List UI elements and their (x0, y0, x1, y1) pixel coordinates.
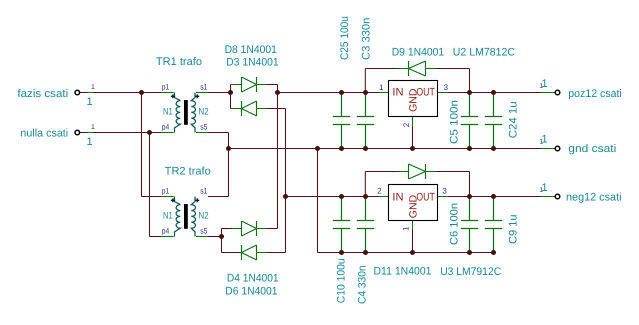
wire D6 anode to v2 (257, 252, 268, 254)
wire D11 left leg (364, 172, 366, 197)
wire v2 vertical D3 anode to D6 anode (285, 109, 287, 253)
junction fazis / TR2 p1 (139, 90, 144, 95)
wire to D6 cathode (222, 252, 240, 254)
svg-text:N1: N1 (163, 211, 173, 222)
capacitor C25 (333, 93, 350, 149)
svg-text:3: 3 (444, 83, 449, 92)
wire D4 cathode to v1 (257, 228, 268, 230)
junction C6 bottom (467, 250, 472, 255)
diode D11 (409, 164, 426, 179)
junction C24 bottom (491, 146, 496, 151)
diode D6 (242, 245, 257, 260)
svg-text:2: 2 (377, 187, 382, 196)
junction C9 top (491, 194, 496, 199)
junction D11 right / C6 / U3 OUT (467, 194, 472, 199)
junction neg rail tap (283, 194, 288, 199)
junction C3 / D9 left (363, 90, 368, 95)
junction node A (228, 90, 233, 95)
svg-text:N2: N2 (199, 107, 209, 118)
junction C3 bottom (363, 146, 368, 151)
svg-text:s1: s1 (200, 82, 208, 91)
junction nulla / TR2 p4 (147, 130, 152, 135)
svg-text:N1: N1 (163, 107, 173, 118)
wire to D4 anode (222, 228, 232, 230)
junction U2 pin2 gnd (410, 146, 415, 151)
junction C25 bottom (339, 146, 344, 151)
wire TR2 s5 branch vertical (221, 229, 223, 253)
svg-text:C4 330n: C4 330n (357, 265, 369, 304)
junction node B (275, 90, 280, 95)
capacitor C10 (333, 197, 350, 253)
regulator U2 (389, 81, 438, 117)
svg-text:C5 100n: C5 100n (448, 100, 460, 144)
wire node A to D3 cathode (230, 108, 233, 110)
svg-text:3: 3 (442, 187, 447, 196)
svg-text:IN: IN (392, 191, 403, 203)
junction D9 right / C5 / U2 OUT (467, 90, 472, 95)
wire node A to D8 anode (230, 84, 233, 86)
svg-text:D11 1N4001: D11 1N4001 (374, 266, 432, 278)
svg-text:s1: s1 (200, 186, 208, 195)
diode D3 (242, 101, 257, 116)
svg-text:C10 100u: C10 100u (335, 258, 347, 303)
wire fazis vertical to TR2 p1 (141, 93, 143, 197)
svg-text:p4: p4 (162, 226, 170, 235)
junction C4 bottom (363, 250, 368, 255)
wire gnd drop to bottom rail (317, 149, 319, 253)
wire D9 left leg (364, 69, 366, 93)
svg-text:U3 LM7912C: U3 LM7912C (440, 266, 501, 278)
svg-text:neg12 csati: neg12 csati (566, 191, 622, 203)
svg-text:C3 330n: C3 330n (360, 18, 372, 60)
wire TR2 s5 to diode branch (196, 236, 209, 238)
svg-text:IN: IN (392, 87, 403, 99)
port gnd csati (555, 146, 560, 151)
junction TR2 s5 (219, 234, 224, 239)
svg-text:gnd csati: gnd csati (568, 143, 616, 155)
wire TR1 s1 to node A (196, 92, 209, 94)
svg-text:U2 LM7812C: U2 LM7812C (453, 46, 515, 58)
svg-text:1: 1 (542, 78, 548, 90)
regulator U3 (389, 185, 438, 221)
svg-text:1: 1 (86, 136, 92, 148)
junction C10 bottom (339, 250, 344, 255)
port nulla csati (75, 130, 80, 135)
wire gnd rail (229, 148, 542, 150)
svg-text:TR2 trafo: TR2 trafo (165, 166, 211, 178)
svg-text:D4 1N4001: D4 1N4001 (227, 273, 279, 285)
port poz12 csati (555, 90, 560, 95)
diode D8 (242, 77, 257, 92)
junction gnd tap (226, 146, 231, 151)
capacitor C6 (461, 197, 478, 253)
wire U2 OUT to poz12 csati (438, 92, 449, 94)
svg-text:C9 1u: C9 1u (507, 214, 519, 244)
diode D4 (242, 221, 257, 236)
svg-text:1: 1 (91, 124, 95, 131)
capacitor C9 (485, 197, 502, 253)
node A vertical (230, 85, 232, 109)
svg-text:1: 1 (86, 96, 92, 108)
wire TR1 s5 down to gnd and TR2 s1 (196, 132, 209, 134)
svg-text:1: 1 (542, 133, 548, 145)
wire D11 right leg (426, 171, 437, 173)
svg-text:2: 2 (402, 122, 411, 127)
capacitor C5 (461, 93, 478, 149)
wire bottom return rail (318, 252, 494, 254)
capacitor C24 (485, 93, 502, 149)
diode D9 (409, 61, 426, 76)
wire negative rail v2 to U3 IN (286, 196, 379, 198)
svg-text:GND: GND (408, 194, 420, 218)
svg-text:C24 1u: C24 1u (507, 101, 519, 138)
svg-text:1: 1 (401, 226, 410, 231)
junction C10 top (339, 194, 344, 199)
svg-text:C25 100u: C25 100u (339, 16, 351, 60)
svg-text:D9 1N4001: D9 1N4001 (392, 46, 445, 58)
svg-text:1: 1 (91, 84, 95, 91)
wire D8 cathode to node B (257, 84, 268, 86)
port fazis csati (75, 90, 80, 95)
capacitor C3 (357, 93, 374, 149)
junction gnd drop (315, 146, 320, 151)
svg-text:GND: GND (407, 88, 419, 112)
svg-text:nulla csati: nulla csati (20, 128, 68, 140)
transformer TR1 (171, 93, 199, 133)
wire nulla csati to TR1 p4 (79, 132, 161, 134)
junction C4 / D11 left (363, 194, 368, 199)
junction C25 top (339, 90, 344, 95)
svg-text:TR1 trafo: TR1 trafo (156, 56, 202, 68)
svg-text:D6 1N4001: D6 1N4001 (225, 286, 277, 298)
junction C5 bottom (467, 146, 472, 151)
wire nulla vertical to TR2 p4 (149, 133, 151, 237)
wire U3 pin 1 to bottom rail (412, 221, 414, 231)
capacitor C4 (357, 197, 374, 253)
svg-text:C6 100n: C6 100n (448, 203, 460, 245)
junction U3 pin1 (410, 250, 415, 255)
wire D9 right leg (426, 68, 437, 70)
svg-text:1: 1 (542, 182, 548, 194)
svg-text:N2: N2 (199, 211, 209, 222)
wire U3 OUT to neg12 csati (438, 196, 449, 198)
svg-text:1: 1 (379, 83, 384, 92)
svg-text:p4: p4 (162, 122, 170, 131)
wire fazis csati to TR1 p1 (79, 92, 161, 94)
port neg12 csati (555, 194, 560, 199)
svg-text:D8 1N4001: D8 1N4001 (225, 44, 277, 56)
transformer TR2 (171, 197, 199, 237)
wire v1 node B vertical to D4 cathode (277, 85, 279, 229)
svg-text:p1: p1 (162, 186, 170, 195)
junction C24 top (491, 90, 496, 95)
svg-text:p1: p1 (162, 82, 170, 91)
svg-text:s5: s5 (200, 122, 208, 131)
svg-text:fazis csati: fazis csati (17, 88, 68, 100)
junction C9 bottom (491, 250, 496, 255)
wire U2 pin 2 to gnd rail (412, 117, 414, 128)
wire D3 anode to v2 (257, 108, 268, 110)
svg-text:s5: s5 (200, 226, 208, 235)
svg-text:poz12 csati: poz12 csati (568, 88, 622, 100)
svg-text:D3 1N4001: D3 1N4001 (226, 56, 278, 68)
wire positive rail node B to U2 IN (278, 92, 379, 94)
